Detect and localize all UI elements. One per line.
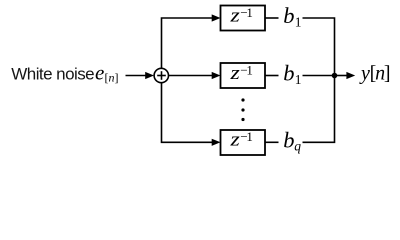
svg-text:e: e [95,61,104,85]
arrowhead into middle block [212,72,221,79]
svg-text:y: y [359,62,370,84]
block z^-1 middle [221,63,266,88]
junction node dot [332,73,338,79]
vertical ellipsis between middle and bottom branches [241,98,244,101]
wire: bq to right rail (bottom corner) [303,76,335,143]
wire: rail up from summer to top branch [162,18,213,69]
svg-text:b: b [283,3,294,28]
wire: middle block to b1 [265,75,279,77]
svg-text:b: b [283,127,294,152]
wire: top block to b1 [265,17,279,19]
wire: bottom block to bq [265,141,279,143]
wire: rail down from summer to bottom branch [162,83,213,143]
wire: b1 to output junction [303,75,335,77]
svg-text:[n]: [n] [370,62,390,84]
wire: b1 to right rail (top corner) [303,18,335,76]
summing junction [154,68,168,82]
arrowhead into top block [212,14,221,21]
svg-text:z: z [229,5,240,26]
arrowhead into bottom block [212,139,221,146]
wire: summer to middle block [169,75,213,77]
svg-text:1: 1 [295,15,302,30]
block z^-1 top [221,6,266,31]
svg-text:[n]: [n] [105,70,119,84]
wire: output arrow [335,75,348,77]
svg-text:−1: −1 [240,62,252,77]
svg-text:−1: −1 [240,129,252,144]
block z^-1 bottom [221,130,266,155]
svg-text:White noise: White noise [11,64,94,83]
svg-text:z: z [229,130,240,151]
svg-text:z: z [229,63,240,84]
svg-text:q: q [294,138,301,153]
svg-text:−1: −1 [240,5,252,20]
wire: input arrow into summer [126,75,147,77]
svg-text:1: 1 [295,72,302,87]
svg-text:b: b [283,61,294,86]
